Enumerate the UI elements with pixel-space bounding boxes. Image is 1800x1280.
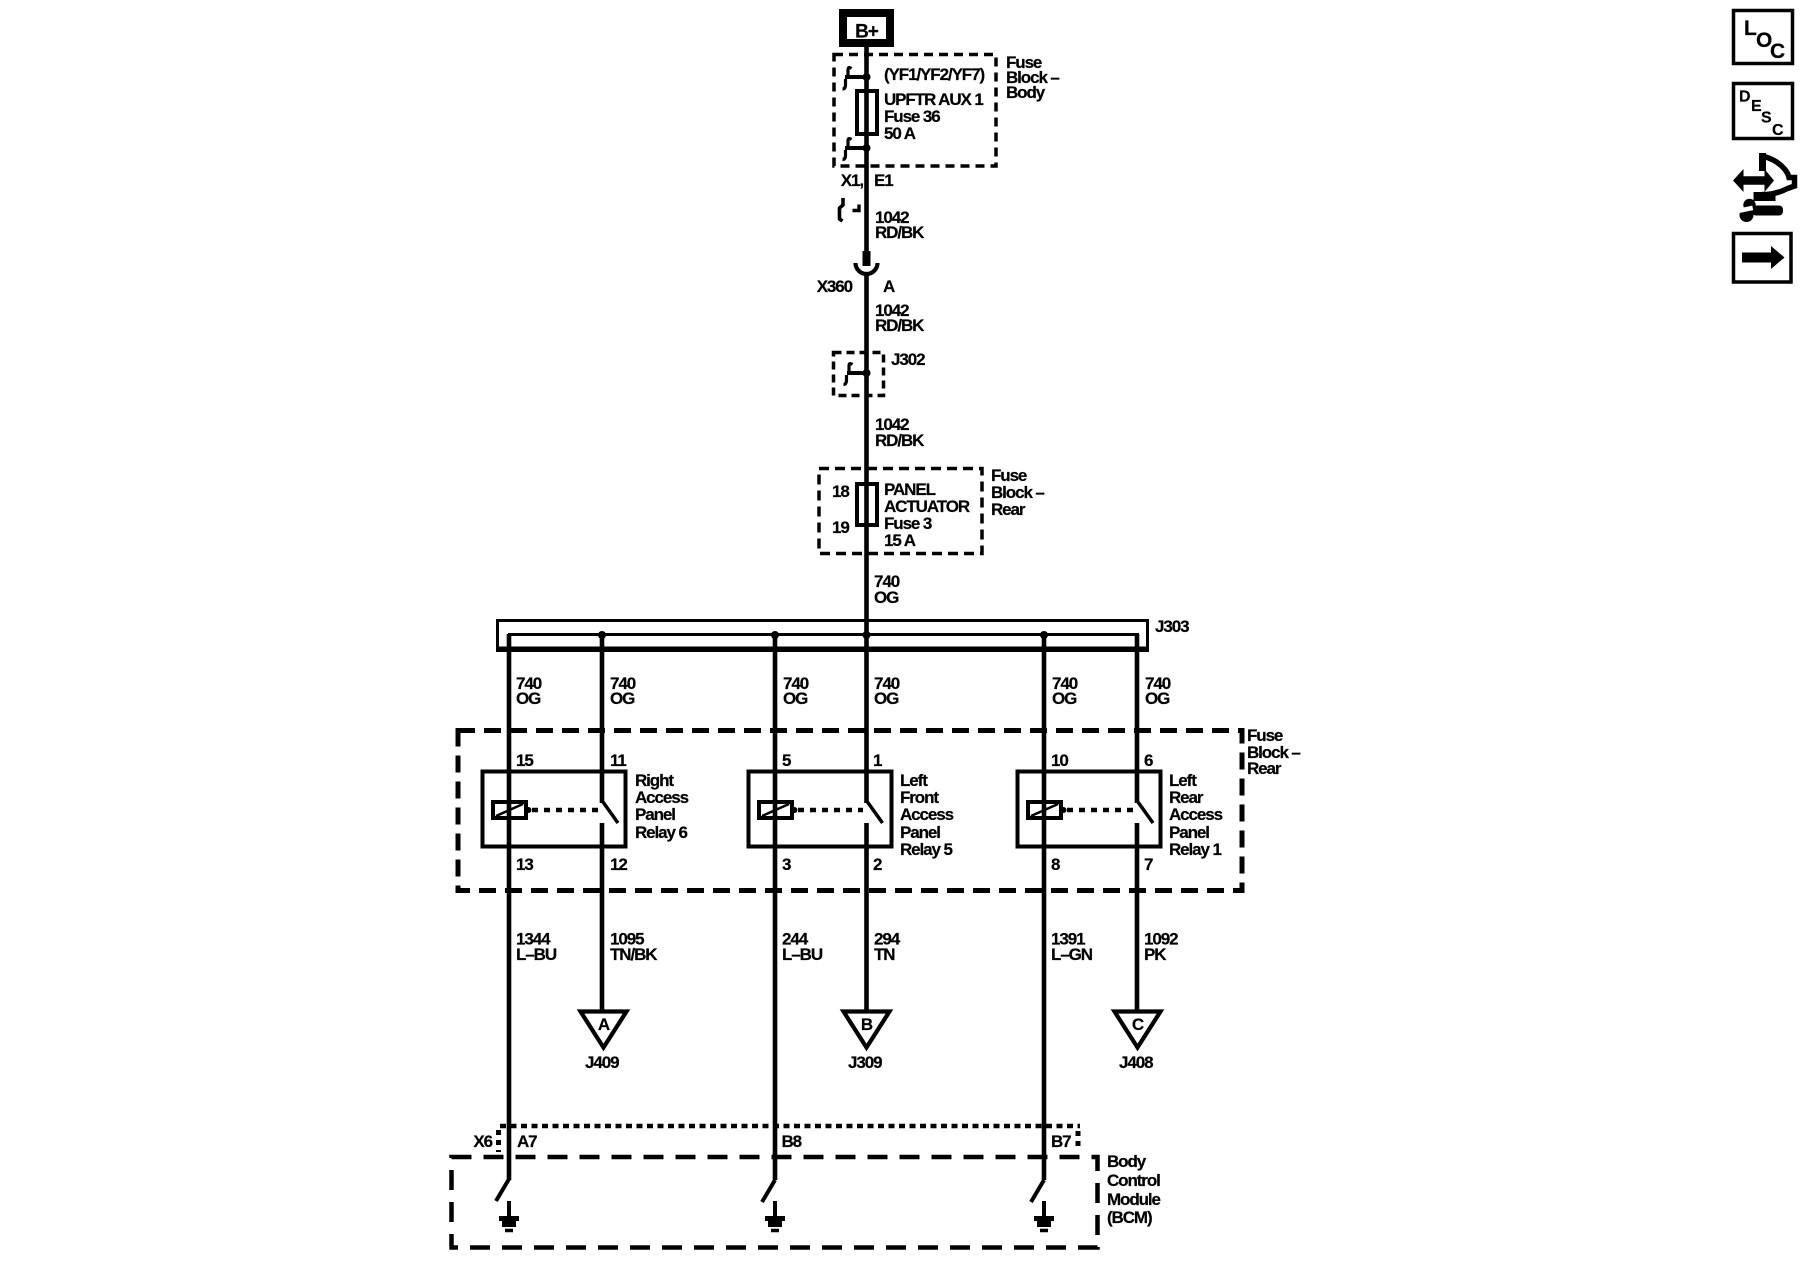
svg-text:12: 12 bbox=[610, 855, 627, 874]
svg-text:RD/BK: RD/BK bbox=[875, 223, 925, 242]
svg-text:(YF1/YF2/YF7): (YF1/YF2/YF7) bbox=[884, 65, 984, 84]
svg-text:A: A bbox=[598, 1015, 610, 1034]
svg-text:B7: B7 bbox=[1051, 1132, 1071, 1151]
svg-text:Relay 6: Relay 6 bbox=[635, 823, 687, 842]
svg-text:5: 5 bbox=[782, 751, 791, 770]
svg-text:19: 19 bbox=[832, 518, 849, 537]
svg-text:50 A: 50 A bbox=[884, 124, 916, 143]
svg-text:OG: OG bbox=[516, 689, 541, 708]
svg-text:TN/BK: TN/BK bbox=[610, 945, 658, 964]
svg-text:2: 2 bbox=[873, 855, 882, 874]
svg-text:J303: J303 bbox=[1155, 617, 1189, 636]
svg-text:C: C bbox=[1132, 1015, 1144, 1034]
svg-text:L–GN: L–GN bbox=[1051, 945, 1093, 964]
svg-text:OG: OG bbox=[874, 588, 899, 607]
svg-text:S: S bbox=[1761, 110, 1772, 127]
svg-text:7: 7 bbox=[1144, 855, 1153, 874]
svg-text:PK: PK bbox=[1144, 945, 1167, 964]
svg-text:L–BU: L–BU bbox=[782, 945, 823, 964]
svg-text:RD/BK: RD/BK bbox=[875, 431, 925, 450]
svg-text:OG: OG bbox=[1145, 689, 1170, 708]
svg-text:1: 1 bbox=[873, 751, 882, 770]
svg-text:10: 10 bbox=[1051, 751, 1068, 770]
svg-text:Body: Body bbox=[1006, 83, 1046, 102]
svg-text:Rear: Rear bbox=[991, 500, 1026, 519]
svg-text:RD/BK: RD/BK bbox=[875, 316, 925, 335]
svg-text:B8: B8 bbox=[782, 1132, 802, 1151]
svg-text:Access: Access bbox=[900, 805, 954, 824]
svg-text:L–BU: L–BU bbox=[516, 945, 557, 964]
svg-text:C: C bbox=[1770, 40, 1785, 63]
svg-text:C: C bbox=[1772, 122, 1784, 139]
svg-text:D: D bbox=[1739, 89, 1751, 106]
svg-text:OG: OG bbox=[783, 689, 808, 708]
svg-text:Panel: Panel bbox=[635, 805, 675, 824]
svg-text:TN: TN bbox=[874, 945, 895, 964]
svg-text:11: 11 bbox=[610, 751, 626, 770]
svg-text:3: 3 bbox=[782, 855, 791, 874]
svg-text:J309: J309 bbox=[848, 1053, 882, 1072]
svg-text:X360: X360 bbox=[817, 277, 853, 296]
svg-text:OG: OG bbox=[610, 689, 635, 708]
svg-text:(BCM): (BCM) bbox=[1107, 1208, 1152, 1227]
svg-text:15: 15 bbox=[516, 751, 533, 770]
svg-text:E1: E1 bbox=[874, 171, 893, 190]
svg-text:Module: Module bbox=[1107, 1190, 1161, 1209]
svg-text:OG: OG bbox=[1052, 689, 1077, 708]
svg-text:J409: J409 bbox=[585, 1053, 619, 1072]
svg-text:Relay 5: Relay 5 bbox=[900, 840, 952, 859]
svg-text:X6: X6 bbox=[473, 1132, 492, 1151]
svg-text:13: 13 bbox=[516, 855, 533, 874]
svg-text:6: 6 bbox=[1144, 751, 1153, 770]
svg-text:18: 18 bbox=[832, 482, 849, 501]
svg-text:Control: Control bbox=[1107, 1171, 1160, 1190]
svg-text:15 A: 15 A bbox=[884, 531, 916, 550]
svg-text:OG: OG bbox=[874, 689, 899, 708]
svg-text:Body: Body bbox=[1107, 1152, 1147, 1171]
svg-text:X1,: X1, bbox=[841, 171, 864, 190]
svg-text:A: A bbox=[883, 277, 895, 296]
svg-text:Access: Access bbox=[1169, 805, 1223, 824]
svg-text:J408: J408 bbox=[1119, 1053, 1153, 1072]
svg-text:8: 8 bbox=[1051, 855, 1060, 874]
svg-text:Rear: Rear bbox=[1247, 759, 1282, 778]
svg-text:A7: A7 bbox=[517, 1132, 537, 1151]
svg-text:Relay 1: Relay 1 bbox=[1169, 840, 1221, 859]
svg-text:J302: J302 bbox=[891, 350, 925, 369]
svg-text:B: B bbox=[861, 1015, 873, 1034]
svg-text:B+: B+ bbox=[855, 22, 879, 43]
